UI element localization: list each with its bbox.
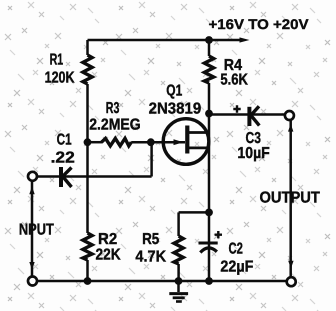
svg-text:22µF: 22µF [220, 258, 253, 275]
svg-text:2N3819: 2N3819 [149, 100, 202, 117]
svg-text:R3: R3 [106, 100, 120, 117]
svg-text:4.7K: 4.7K [135, 249, 166, 266]
svg-text:22K: 22K [96, 247, 122, 264]
svg-text:.22: .22 [51, 149, 75, 166]
svg-text:R5: R5 [142, 231, 159, 248]
svg-text:10µF: 10µF [237, 145, 270, 162]
svg-text:5.6K: 5.6K [220, 71, 248, 88]
svg-text:Q1: Q1 [166, 83, 182, 100]
svg-text:C2: C2 [229, 241, 244, 258]
svg-text:120K: 120K [45, 70, 75, 87]
svg-text:OUTPUT: OUTPUT [260, 189, 321, 206]
svg-text:2.2MEG: 2.2MEG [89, 116, 141, 133]
svg-text:NPUT: NPUT [19, 222, 54, 239]
svg-text:R1: R1 [50, 51, 64, 68]
svg-text:R2: R2 [98, 231, 117, 248]
svg-text:+16V TO +20V: +16V TO +20V [209, 16, 310, 32]
svg-text:C1: C1 [57, 132, 72, 149]
